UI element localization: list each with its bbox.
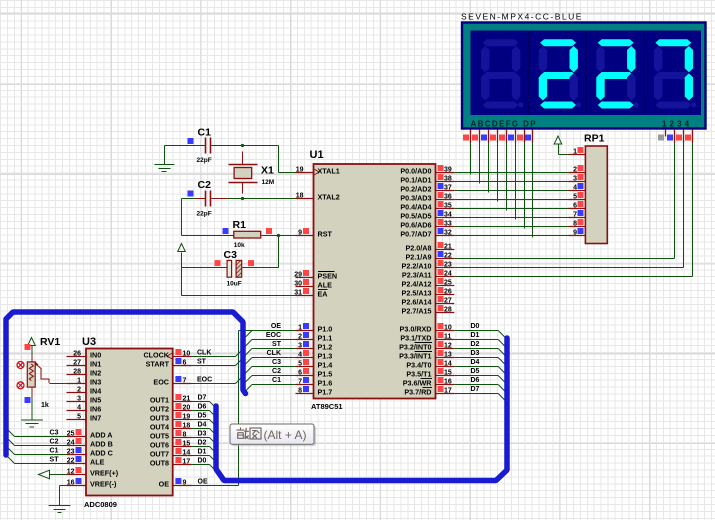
bus entry C2 left <box>7 438 15 446</box>
wire P0.7 row to RP1 pin 9 <box>454 235 568 237</box>
bus entry D5 at U3 <box>210 420 217 427</box>
bus entry ST at U1 <box>244 349 253 358</box>
bus entry D1 at U1 <box>498 340 506 348</box>
svg-text:P0.2/AD2: P0.2/AD2 <box>400 185 431 194</box>
U1 left pin stubs, numbers and state markers <box>294 167 314 395</box>
bus entry C3 at U1 <box>244 367 253 376</box>
svg-text:C2: C2 <box>198 179 212 191</box>
svg-text:15: 15 <box>444 370 452 377</box>
svg-text:P3.1/TXD: P3.1/TXD <box>400 334 431 343</box>
U3 right pin names <box>143 351 169 489</box>
wire segment E to P0.4 <box>506 143 508 211</box>
bus entry D6 at U3 <box>210 411 217 418</box>
svg-text:P2.4/A12: P2.4/A12 <box>402 280 432 289</box>
adjust buttons of RV1 <box>17 362 24 389</box>
svg-text:IN1: IN1 <box>90 360 101 369</box>
svg-text:6: 6 <box>183 360 187 367</box>
svg-text:10: 10 <box>183 351 191 358</box>
net D6 wire at U1 P3.6 <box>454 377 498 385</box>
wire XTAL1 net: ground to C1 to XTAL1 <box>165 144 296 173</box>
svg-text:IN6: IN6 <box>90 405 101 414</box>
svg-text:P3.7/RD: P3.7/RD <box>404 388 431 397</box>
svg-text:P2.6/A14: P2.6/A14 <box>402 298 432 307</box>
svg-text:CLOCK: CLOCK <box>143 351 169 360</box>
power symbol VCC above RV1 <box>28 338 36 355</box>
svg-text:26: 26 <box>444 289 452 296</box>
svg-text:P1.1: P1.1 <box>318 334 333 343</box>
wire P0.1 row to RP1 pin 3 <box>454 181 568 183</box>
net C2 wire at U1 P1.5 <box>252 368 296 376</box>
svg-text:OUT8: OUT8 <box>150 459 169 468</box>
bus entry D3 at U1 <box>498 358 506 366</box>
svg-text:21: 21 <box>444 244 452 251</box>
svg-text:7: 7 <box>298 379 302 386</box>
svg-text:7: 7 <box>573 212 577 219</box>
display digit pins 1-4 <box>658 129 693 143</box>
respack RP1 <box>569 133 608 244</box>
U3 right pin stubs, numbers and markers <box>173 349 191 487</box>
svg-text:ADC0809: ADC0809 <box>84 500 117 509</box>
svg-text:P2.5/A13: P2.5/A13 <box>402 289 432 298</box>
svg-text:D0: D0 <box>471 323 480 330</box>
svg-text:OUT7: OUT7 <box>150 450 169 459</box>
power symbol VCC at RP1 pin 1 <box>554 136 562 155</box>
wire RST net: C2 junction through R1 to RST pin <box>182 234 296 237</box>
net D0 wire at U1 P3.0 <box>454 323 498 331</box>
svg-text:D7: D7 <box>471 386 480 393</box>
bus entry D1 at U3 <box>210 456 217 463</box>
bus entry C3 left <box>7 429 15 437</box>
svg-text:P0.5/AD5: P0.5/AD5 <box>400 212 431 221</box>
svg-text:14: 14 <box>183 450 191 457</box>
net D1 wire at U1 P3.1 <box>454 332 498 340</box>
svg-text:START: START <box>146 360 170 369</box>
svg-text:P1.7: P1.7 <box>318 388 333 397</box>
svg-text:RV1: RV1 <box>40 336 60 348</box>
bus entry D2 at U3 <box>210 447 217 454</box>
svg-text:D6: D6 <box>471 377 480 384</box>
display segment pins A-G,DP <box>463 129 533 143</box>
svg-text:ADD A: ADD A <box>90 431 113 440</box>
svg-text:2: 2 <box>298 334 302 341</box>
svg-text:OUT3: OUT3 <box>150 414 169 423</box>
svg-text:P0.0/AD0: P0.0/AD0 <box>400 167 431 176</box>
svg-text:AT89C51: AT89C51 <box>311 402 343 411</box>
net label ST at U3 <box>192 359 236 366</box>
wire C2 left to RST row <box>181 199 183 236</box>
bus entry D3 at U3 <box>210 438 217 445</box>
adc U3 ADC0809 body <box>82 336 173 509</box>
bus entry D6 at U1 <box>498 385 506 393</box>
svg-text:IN0: IN0 <box>90 351 101 360</box>
net D4 wire at U1 P3.4 <box>454 359 498 367</box>
svg-text:P0.1/AD1: P0.1/AD1 <box>400 176 431 185</box>
bus entry D4 at U3 <box>210 429 217 436</box>
crystal X1 12M <box>229 152 275 194</box>
bus entry D0 at U1 <box>498 331 506 339</box>
svg-text:5: 5 <box>298 361 302 368</box>
svg-text:RST: RST <box>318 230 333 239</box>
svg-text:ST: ST <box>50 457 60 464</box>
U1 right pin stubs, numbers and state markers <box>436 165 454 395</box>
bus entry C1 left <box>7 447 15 455</box>
bus entry ST <box>236 358 244 366</box>
net D5 wire at U3 OUT3 <box>192 413 210 420</box>
svg-text:IN3: IN3 <box>90 378 101 387</box>
svg-text:P3.5/T1: P3.5/T1 <box>406 370 431 379</box>
net D6 wire at U3 OUT2 <box>192 404 210 411</box>
svg-text:38: 38 <box>444 176 452 183</box>
svg-text:9: 9 <box>183 480 187 487</box>
svg-text:P2.0/A8: P2.0/A8 <box>406 244 432 253</box>
svg-text:18: 18 <box>296 193 304 200</box>
svg-text:IN7: IN7 <box>90 414 101 423</box>
U3 left pin names <box>90 351 119 489</box>
wire P0.4 row to RP1 pin 6 <box>454 208 568 210</box>
svg-text:ABCDEFG DP: ABCDEFG DP <box>471 120 537 129</box>
wire segment F to P0.5 <box>515 143 517 220</box>
svg-text:D4: D4 <box>471 359 480 366</box>
svg-text:18: 18 <box>183 423 191 430</box>
svg-text:4: 4 <box>573 185 577 192</box>
svg-text:C1: C1 <box>198 127 212 139</box>
power symbol VCC above C3 <box>178 244 186 255</box>
svg-text:OE: OE <box>271 323 281 330</box>
net D3 wire at U1 P3.3 <box>454 350 498 358</box>
svg-text:OUT1: OUT1 <box>150 396 169 405</box>
svg-text:IN2: IN2 <box>90 369 101 378</box>
svg-text:C3: C3 <box>50 430 59 437</box>
wire P0.3 row to RP1 pin 5 <box>454 199 568 201</box>
svg-text:35: 35 <box>444 203 452 210</box>
svg-text:2: 2 <box>573 167 577 174</box>
svg-text:P1.0: P1.0 <box>318 325 333 334</box>
net ST wire at U3 ALE <box>15 457 67 464</box>
svg-text:SEVEN-MPX4-CC-BLUE: SEVEN-MPX4-CC-BLUE <box>461 12 583 22</box>
svg-text:ST: ST <box>197 359 207 366</box>
wire P2.3 to display digit 4 <box>454 276 692 278</box>
svg-text:C1: C1 <box>50 448 59 455</box>
net D0 wire at U3 OUT8 <box>192 458 210 465</box>
svg-text:10uF: 10uF <box>227 281 242 288</box>
capacitor C3 10uF electrolytic <box>215 249 255 288</box>
svg-text:P3.2/INT0: P3.2/INT0 <box>399 343 431 352</box>
svg-text:D5: D5 <box>471 368 480 375</box>
svg-text:36: 36 <box>444 194 452 201</box>
svg-text:30: 30 <box>294 281 302 288</box>
svg-text:P1.6: P1.6 <box>318 379 333 388</box>
capacitor C2 22pF <box>188 179 212 218</box>
svg-text:CLK: CLK <box>267 350 281 357</box>
svg-text:1k: 1k <box>41 402 49 409</box>
svg-text:P3.6/WR: P3.6/WR <box>403 379 433 388</box>
U1 left pin names <box>318 167 340 397</box>
bus entry D2 at U1 <box>498 349 506 357</box>
svg-text:10k: 10k <box>234 242 245 249</box>
net C1 wire at U3 ADD C <box>15 448 67 455</box>
svg-text:29: 29 <box>294 272 302 279</box>
net D7 wire at U3 OUT1 <box>192 395 210 402</box>
svg-text:P0.4/AD4: P0.4/AD4 <box>400 203 431 212</box>
svg-text:34: 34 <box>444 212 452 219</box>
net D2 wire at U1 P3.2 <box>454 341 498 349</box>
net label CLK at U3 <box>192 350 236 357</box>
svg-text:P2.7/A15: P2.7/A15 <box>402 307 432 316</box>
svg-text:EOC: EOC <box>153 378 169 387</box>
power arrow VREF(+) <box>39 470 67 479</box>
svg-text:D4: D4 <box>198 422 207 429</box>
svg-text:P0.6/AD6: P0.6/AD6 <box>400 221 431 230</box>
svg-text:PSEN: PSEN <box>318 272 338 281</box>
svg-text:8: 8 <box>573 221 577 228</box>
svg-text:24: 24 <box>67 440 75 447</box>
bus entry D4 at U1 <box>498 367 506 375</box>
svg-text:X1: X1 <box>261 165 274 177</box>
bus entry D7 at U1 <box>498 394 506 402</box>
svg-text:C2: C2 <box>272 368 281 375</box>
svg-text:D7: D7 <box>198 395 207 402</box>
svg-text:P0.3/AD3: P0.3/AD3 <box>400 194 431 203</box>
seven-segment display DS1 SEVEN-MPX4-CC-BLUE <box>461 12 706 129</box>
wire VREF(-) to ground <box>60 486 67 506</box>
bus entry D7 at U3 <box>210 402 217 409</box>
svg-text:23: 23 <box>444 262 452 269</box>
svg-text:12: 12 <box>444 343 452 350</box>
net D4 wire at U3 OUT4 <box>192 422 210 429</box>
wire C3 row <box>182 267 279 269</box>
svg-text:P0.7/AD7: P0.7/AD7 <box>400 230 431 239</box>
bus entry ST left <box>7 456 15 464</box>
svg-text:25: 25 <box>444 280 452 287</box>
svg-text:16: 16 <box>67 480 75 487</box>
net CLK wire at U1 P1.3 <box>252 350 296 358</box>
svg-text:3: 3 <box>298 343 302 350</box>
wire segment B to P0.1 <box>479 143 481 184</box>
svg-text:OE: OE <box>159 480 170 489</box>
ground symbol below U3 <box>49 506 71 513</box>
bus entry D0 at U3 <box>210 465 217 472</box>
svg-text:D0: D0 <box>198 458 207 465</box>
svg-text:23: 23 <box>67 449 75 456</box>
wire P2.2 to display digit 3 <box>454 267 683 269</box>
svg-text:20: 20 <box>183 405 191 412</box>
svg-text:OE: OE <box>198 479 208 486</box>
wire P0.5 row to RP1 pin 7 <box>454 217 568 219</box>
wire C3 net left vertical to EA row <box>181 255 183 296</box>
svg-text:D1: D1 <box>471 332 480 339</box>
svg-text:EA: EA <box>318 290 328 299</box>
wire P0.0 row to RP1 pin 2 <box>454 172 568 174</box>
svg-text:P3.0/RXD: P3.0/RXD <box>400 325 432 334</box>
svg-text:16: 16 <box>444 379 452 386</box>
svg-text:P1.4: P1.4 <box>318 361 333 370</box>
net C3 wire at U3 ADD A <box>15 430 67 437</box>
svg-text:D6: D6 <box>198 404 207 411</box>
svg-text:U3: U3 <box>82 336 96 348</box>
net C1 wire at U1 P1.6 <box>252 377 296 385</box>
svg-text:P1.2: P1.2 <box>318 343 333 352</box>
bus entry C2 at U1 <box>244 376 253 385</box>
svg-text:8: 8 <box>183 432 187 439</box>
svg-text:22pF: 22pF <box>197 157 212 164</box>
svg-text:1234: 1234 <box>662 120 692 129</box>
svg-text:P2.2/A10: P2.2/A10 <box>402 262 432 271</box>
svg-text:OUT6: OUT6 <box>150 441 169 450</box>
svg-text:U1: U1 <box>310 149 324 161</box>
wire segment DP to P0.7 <box>532 143 534 238</box>
svg-text:17: 17 <box>183 459 191 466</box>
svg-text:7: 7 <box>183 378 187 385</box>
wire P2.1 to display digit 2 <box>454 258 674 260</box>
net EOC wire at U1 P1.1 <box>252 332 296 340</box>
wire segment G to P0.6 <box>524 143 526 229</box>
svg-text:3: 3 <box>77 396 81 403</box>
svg-text:25: 25 <box>67 431 75 438</box>
net label EOC at U3 <box>192 377 236 384</box>
svg-text:P2.1/A9: P2.1/A9 <box>406 253 432 262</box>
svg-text:C3: C3 <box>224 249 238 261</box>
wire segment A to P0.0 <box>470 143 472 175</box>
svg-text:6: 6 <box>298 370 302 377</box>
svg-text:5: 5 <box>77 414 81 421</box>
svg-text:ST: ST <box>272 341 282 348</box>
svg-text:D3: D3 <box>471 350 480 357</box>
svg-text:32: 32 <box>444 230 452 237</box>
svg-text:15: 15 <box>183 441 191 448</box>
svg-text:19: 19 <box>296 167 304 174</box>
bus entry CLK <box>236 349 244 357</box>
svg-text:C2: C2 <box>50 439 59 446</box>
bus entry CLK at U1 <box>244 358 253 367</box>
svg-text:ALE: ALE <box>90 458 105 467</box>
svg-text:1: 1 <box>298 325 302 332</box>
svg-text:C1: C1 <box>272 377 281 384</box>
wire R1 junction down to C3 row <box>278 236 280 268</box>
svg-text:12: 12 <box>67 469 75 476</box>
svg-text:24: 24 <box>444 271 452 278</box>
svg-text:EOC: EOC <box>266 332 281 339</box>
svg-text:9: 9 <box>573 230 577 237</box>
svg-text:14: 14 <box>444 361 452 368</box>
svg-text:IN5: IN5 <box>90 396 101 405</box>
net ST wire at U1 P1.2 <box>252 341 296 349</box>
svg-text:D3: D3 <box>198 431 207 438</box>
U1 clock chevron on XTAL1 <box>314 169 319 175</box>
bus data (right loop) <box>216 338 507 481</box>
svg-text:6: 6 <box>573 203 577 210</box>
bus control (left loop) <box>6 312 246 455</box>
svg-text:12M: 12M <box>262 179 275 186</box>
svg-text:22pF: 22pF <box>197 211 212 218</box>
svg-text:9: 9 <box>298 230 302 237</box>
svg-text:37: 37 <box>444 185 452 192</box>
svg-text:4: 4 <box>298 352 302 359</box>
svg-text:VREF(-): VREF(-) <box>90 480 117 489</box>
wire segment C to P0.2 <box>488 143 490 193</box>
ground symbol below RV1 <box>21 420 43 427</box>
svg-text:22: 22 <box>67 458 75 465</box>
resistor R1 10k <box>223 219 273 249</box>
wire RV1 bottom to ground <box>31 388 33 420</box>
svg-text:10: 10 <box>444 325 452 332</box>
bus entry EOC at U1 <box>244 340 253 349</box>
svg-text:39: 39 <box>444 167 452 174</box>
net D7 wire at U1 P3.7 <box>454 386 498 394</box>
svg-text:5: 5 <box>573 194 577 201</box>
bus entry EOC <box>236 376 244 384</box>
U1 right pin names <box>399 167 432 397</box>
U3 clock chevron on CLOCK pin <box>167 353 172 359</box>
svg-text:OUT4: OUT4 <box>150 423 169 432</box>
potentiometer RV1 1k <box>25 336 61 409</box>
svg-text:27: 27 <box>444 298 452 305</box>
net D5 wire at U1 P3.5 <box>454 368 498 376</box>
svg-text:EOC: EOC <box>197 377 212 384</box>
svg-text:RP1: RP1 <box>584 133 605 145</box>
ground symbol near C1 <box>155 146 175 172</box>
svg-text:IN4: IN4 <box>90 387 101 396</box>
wire RP1 pin1 to VCC <box>559 154 569 156</box>
svg-text:OUT5: OUT5 <box>150 432 169 441</box>
wire RV1 wiper to IN3 <box>50 383 67 385</box>
net D2 wire at U3 OUT6 <box>192 440 210 447</box>
svg-text:C3: C3 <box>272 359 281 366</box>
U3 left pin stubs and numbers <box>67 351 87 487</box>
svg-text:21: 21 <box>183 396 191 403</box>
wire EA net to pin 31 <box>182 295 296 297</box>
svg-text:2: 2 <box>77 387 81 394</box>
svg-text:17: 17 <box>444 388 452 395</box>
svg-text:P1.5: P1.5 <box>318 370 333 379</box>
wire XTAL2 net: C2 to crystal to XTAL2 <box>182 197 296 200</box>
svg-text:ADD B: ADD B <box>90 440 113 449</box>
svg-text:22: 22 <box>444 253 452 260</box>
svg-text:D2: D2 <box>471 341 480 348</box>
capacitor C1 22pF <box>188 127 212 165</box>
net C2 wire at U3 ADD B <box>15 439 67 446</box>
svg-text:P3.4/T0: P3.4/T0 <box>406 361 431 370</box>
svg-text:D2: D2 <box>198 440 207 447</box>
svg-text:1: 1 <box>573 149 577 156</box>
bus entry D5 at U1 <box>498 376 506 384</box>
svg-text:ALE: ALE <box>318 281 333 290</box>
svg-text:OUT2: OUT2 <box>150 405 169 414</box>
net D3 wire at U3 OUT5 <box>192 431 210 438</box>
svg-text:R1: R1 <box>233 219 247 231</box>
svg-text:ADD C: ADD C <box>90 449 113 458</box>
svg-text:4: 4 <box>77 405 81 412</box>
svg-text:D5: D5 <box>198 413 207 420</box>
svg-text:(Alt + A): (Alt + A) <box>264 428 307 442</box>
svg-text:11: 11 <box>444 334 452 341</box>
svg-text:1: 1 <box>77 378 81 385</box>
svg-text:D1: D1 <box>198 449 207 456</box>
svg-text:19: 19 <box>183 414 191 421</box>
wire P0.6 row to RP1 pin 8 <box>454 226 568 228</box>
wire segment D to P0.3 <box>497 143 499 202</box>
net C3 wire at U1 P1.4 <box>252 359 296 367</box>
svg-text:26: 26 <box>73 351 81 358</box>
svg-text:3: 3 <box>573 176 577 183</box>
svg-text:CLK: CLK <box>197 350 211 357</box>
bus entry OE at U1 <box>244 331 253 340</box>
svg-text:8: 8 <box>298 388 302 395</box>
svg-text:P1.3: P1.3 <box>318 352 333 361</box>
svg-text:XTAL2: XTAL2 <box>318 193 340 202</box>
bus entry C1 at U1 <box>244 385 253 394</box>
svg-text:P3.3/INT1: P3.3/INT1 <box>399 352 431 361</box>
svg-text:VREF(+): VREF(+) <box>90 469 119 478</box>
